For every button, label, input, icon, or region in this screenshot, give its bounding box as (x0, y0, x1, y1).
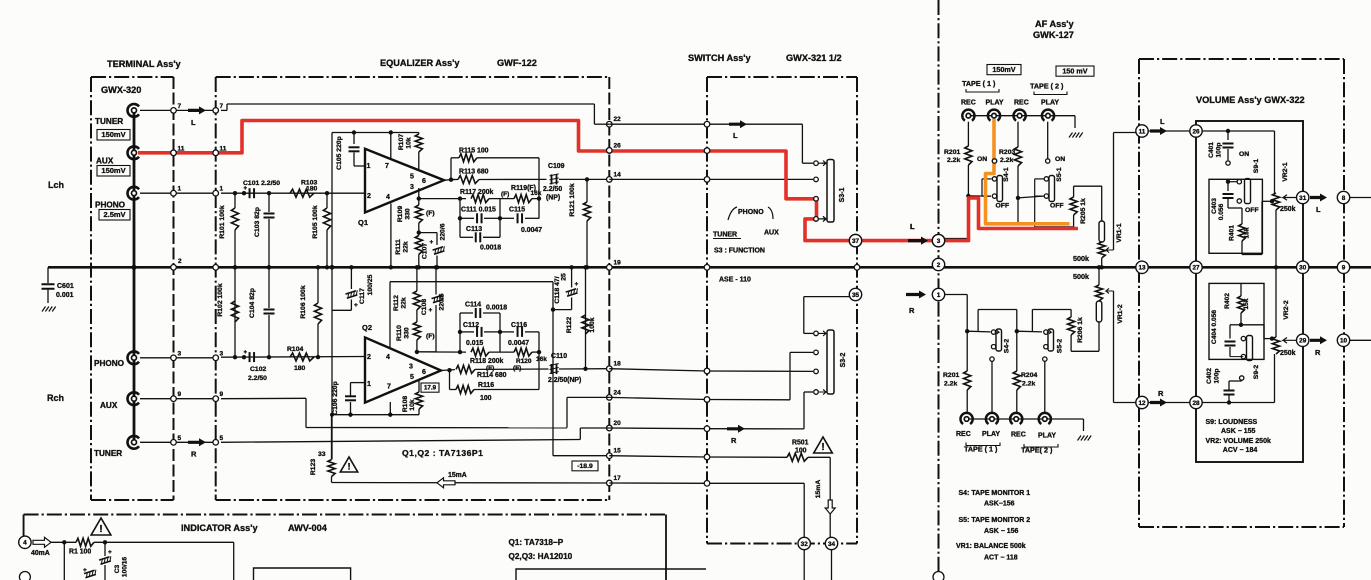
capacitor C404 0.056 (1229, 325, 1231, 339)
switch S5-2 (1044, 330, 1048, 334)
jack PHONO L (128, 187, 139, 200)
S3-2 wiper arrows (819, 331, 827, 336)
wire 35 route to S3-2 (804, 296, 856, 298)
resistor R205 1k (1073, 186, 1075, 197)
svg-text:R105 100k: R105 100k (312, 205, 319, 238)
junction jack stem to bus (131, 265, 136, 270)
pin 1 terminal border (171, 190, 177, 196)
svg-text:2.2/50: 2.2/50 (248, 375, 267, 382)
svg-text:ACT − 118: ACT − 118 (984, 555, 1018, 562)
svg-text:PLAY: PLAY (982, 431, 1000, 438)
jack TUNER R (128, 436, 139, 449)
svg-text:S5-2: S5-2 (1057, 339, 1064, 354)
svg-text:Q1: Q1 (358, 218, 368, 227)
capacitor C103 82p (267, 191, 271, 195)
black wire under red at S3-1 (786, 151, 813, 199)
warning triangle near R501 (814, 437, 833, 453)
svg-text:C107: C107 (422, 243, 429, 259)
feedback loop R115 wire (450, 158, 452, 180)
resistor R201 2.2k Lch (967, 122, 969, 146)
junction indicator (51, 541, 76, 543)
svg-text:AF Ass'y: AF Ass'y (1035, 19, 1074, 29)
svg-text:R206 1k: R206 1k (1077, 317, 1084, 343)
circle 9 bus (1337, 261, 1349, 273)
svg-text:150 mV: 150 mV (1062, 66, 1087, 75)
wire jack row y=357.8 (140, 357, 216, 359)
svg-text:100/25: 100/25 (367, 274, 374, 295)
svg-text:26: 26 (1192, 128, 1200, 135)
svg-text:R123: R123 (310, 459, 317, 475)
feedback loop R116 wire (449, 370, 451, 389)
wire R205 node to VR1-1 (1074, 185, 1102, 187)
svg-text:29: 29 (1299, 338, 1307, 345)
svg-text:(NP): (NP) (546, 195, 560, 202)
wire 24 row jog (566, 397, 568, 427)
junction Rch REC2 (1015, 329, 1019, 333)
wire tape jack top row (968, 115, 1075, 117)
svg-text:C111 0.015: C111 0.015 (461, 207, 496, 214)
svg-text:2.5mV: 2.5mV (103, 210, 125, 219)
capacitor C118 47/25 (569, 265, 573, 269)
svg-text:2.2k: 2.2k (944, 381, 957, 388)
svg-text:2.2k: 2.2k (947, 157, 960, 164)
circle 37 over red (849, 234, 861, 246)
arrow L to AF Lch (908, 237, 928, 245)
wire jack row y=442.3 (140, 441, 216, 443)
resistor R120 16k (514, 348, 532, 356)
voltage label -18.9 (572, 461, 598, 471)
svg-text:(F): (F) (513, 365, 521, 372)
svg-text:AWV-004: AWV-004 (288, 523, 328, 533)
svg-text:L: L (1316, 205, 1321, 214)
svg-text:5: 5 (220, 435, 224, 442)
switch S4-2 route (967, 330, 990, 333)
resistor R113 680 (451, 179, 458, 181)
svg-text:C404 0.056: C404 0.056 (1211, 310, 1218, 344)
svg-text:2.2k: 2.2k (1000, 157, 1013, 164)
AF Assy boundary dash line (938, 0, 940, 580)
svg-text:100: 100 (480, 395, 492, 402)
svg-text:9: 9 (220, 391, 224, 398)
wire -18.9V supply vertical (552, 282, 554, 456)
svg-text:PLAY: PLAY (1041, 100, 1059, 107)
svg-text:R117 200k: R117 200k (460, 189, 494, 196)
svg-text:3: 3 (220, 350, 224, 357)
wire R402 to VR2-2 tap (1241, 324, 1264, 326)
capacitor C105 220p (352, 130, 356, 134)
svg-text:2: 2 (367, 193, 371, 200)
circle 2 on AF border bus (932, 258, 944, 270)
svg-text:TUNER: TUNER (713, 232, 737, 239)
ground top tape jacks (1069, 133, 1073, 138)
svg-text:PHONO: PHONO (95, 201, 126, 210)
svg-text:9: 9 (178, 391, 182, 398)
svg-text:1: 1 (178, 186, 182, 193)
svg-text:3: 3 (937, 238, 941, 245)
svg-text:C108: C108 (421, 299, 428, 315)
circle 4 (19, 536, 31, 548)
svg-text:150mV: 150mV (992, 65, 1015, 74)
wire 14 line into switch (609, 178, 813, 180)
svg-text:26: 26 (614, 142, 622, 149)
capacitor C104 82p (267, 355, 271, 359)
wire AUX L to pin 26 (under red) (221, 152, 242, 154)
jack TAPE2 PLAY top (1042, 110, 1054, 121)
svg-text:(F): (F) (426, 333, 435, 340)
svg-text:REC: REC (961, 100, 976, 107)
wire jack row y=398.7 (140, 398, 216, 400)
svg-text:R116: R116 (478, 382, 494, 389)
svg-text:R203: R203 (999, 149, 1015, 156)
jack TUNER L (128, 104, 139, 117)
svg-text:3: 3 (409, 364, 413, 371)
svg-text:TAPE ( 2 ): TAPE ( 2 ) (1030, 82, 1064, 91)
svg-text:-18.9: -18.9 (577, 463, 593, 470)
svg-text:L: L (733, 131, 738, 140)
loudness box Rch (1209, 283, 1264, 359)
svg-text:15k: 15k (1244, 227, 1251, 238)
svg-text:C112: C112 (463, 322, 479, 329)
svg-text:R120: R120 (516, 358, 532, 365)
jack shield stem wire (133, 110, 136, 442)
resistor R111 22k (418, 233, 420, 236)
indicator sub box (254, 568, 351, 580)
svg-text:2: 2 (178, 258, 182, 265)
resistor R501 100 (787, 453, 808, 461)
svg-text:ACV − 184: ACV − 184 (1223, 447, 1258, 454)
wire PHONO L input line (221, 192, 365, 194)
svg-text:TUNER: TUNER (94, 449, 122, 458)
switch S4-1 (992, 159, 996, 163)
svg-text:R108: R108 (402, 396, 409, 412)
svg-text:0.0018: 0.0018 (480, 245, 501, 252)
svg-text:22: 22 (614, 116, 622, 123)
arrow L after TUNER L (188, 106, 206, 114)
wire 20 line into switch jog to S3-2 (609, 427, 707, 430)
svg-text:C105 220p: C105 220p (336, 136, 343, 170)
svg-text:15mA: 15mA (448, 472, 467, 479)
svg-text:R104: R104 (287, 346, 303, 353)
jack TAPE2 REC top (1013, 110, 1025, 121)
svg-text:ASE - 110: ASE - 110 (719, 277, 751, 284)
svg-text:VR1: BALANCE 500k: VR1: BALANCE 500k (956, 543, 1026, 550)
svg-text:9: 9 (1342, 265, 1346, 272)
svg-text:5: 5 (410, 374, 414, 381)
svg-text:R402: R402 (1224, 293, 1231, 309)
svg-text:220/6: 220/6 (440, 223, 447, 240)
svg-text:TERMINAL Ass'y: TERMINAL Ass'y (107, 59, 182, 69)
circle 28 (1190, 396, 1202, 408)
resistor R1 100 (76, 538, 94, 546)
VR1-1 wiper arrow (1106, 247, 1114, 252)
wire TUNER L to pin 22 jog (221, 109, 227, 111)
wire Lch volume input (1202, 130, 1275, 132)
jack AUX L (128, 146, 139, 159)
jack AUX R (128, 392, 139, 405)
circle 32 (798, 537, 810, 549)
resistor R101 100k (233, 191, 237, 195)
svg-text:R: R (731, 436, 737, 445)
svg-text:R118 200k: R118 200k (470, 358, 504, 365)
svg-text:C115: C115 (509, 207, 525, 214)
arrow L over red between 37 and 3 (908, 237, 928, 245)
jack TAPE1 PLAY top (988, 110, 1000, 121)
svg-text:100/16: 100/16 (122, 557, 129, 578)
capacitor C402 100p (1227, 400, 1231, 404)
svg-text:Q2,Q3: HA12010: Q2,Q3: HA12010 (509, 552, 573, 561)
svg-text:R109: R109 (397, 206, 404, 222)
SWITCH Assy border box GWX-321 (707, 76, 857, 78)
circle 13 on bus (1136, 261, 1148, 273)
pin 26 switch border over red (704, 148, 710, 154)
wire S5-1 OFF path to R205 bottom (1035, 226, 1074, 228)
svg-text:!: ! (821, 442, 824, 453)
resistor R107 10k (418, 133, 420, 135)
wire indicator border to circle 4 (23, 515, 25, 537)
svg-text:VR2-2: VR2-2 (1283, 300, 1290, 319)
pin 18 switch border (704, 368, 710, 374)
svg-text:C117: C117 (359, 288, 366, 304)
svg-text:+: + (575, 281, 579, 288)
svg-text:(F): (F) (426, 210, 435, 217)
pin 7 equalizer border (213, 108, 219, 114)
svg-text:OFF: OFF (1050, 203, 1064, 210)
indicator sub box 2 (516, 569, 706, 580)
svg-text:AUX: AUX (764, 230, 779, 237)
svg-text:5: 5 (178, 435, 182, 442)
resistor R114 680 (456, 365, 475, 373)
resistor R117 200k (471, 195, 489, 203)
svg-text:C106 220p: C106 220p (332, 381, 339, 415)
svg-text:C109: C109 (548, 163, 565, 170)
pin 20 equalizer right border (607, 425, 613, 431)
capacitor C115 0.0047 (500, 217, 514, 219)
resistor R110 330 (415, 350, 419, 354)
svg-text:100: 100 (795, 448, 807, 455)
potentiometer VR1-2 balance 500k (1098, 322, 1100, 351)
pin 24 switch border (704, 397, 710, 403)
wire rail spine vertical (331, 133, 333, 460)
svg-text:S4-1: S4-1 (1003, 167, 1010, 182)
arrow R on 20 line (727, 425, 745, 433)
arrow L on 22 line (729, 120, 747, 128)
svg-text:VR1-2: VR1-2 (1117, 304, 1124, 323)
svg-text:EQUALIZER Ass'y: EQUALIZER Ass'y (380, 58, 460, 68)
svg-text:AUX: AUX (96, 157, 114, 166)
circle 8 (1337, 191, 1349, 203)
svg-text:R201: R201 (944, 149, 960, 156)
wire R206 to VR1-2 (1071, 350, 1099, 352)
svg-text:250k: 250k (1280, 206, 1296, 213)
wire 17 line into switch to circle 32 (609, 482, 707, 484)
svg-text:0.001: 0.001 (56, 292, 74, 299)
wire PLAY1 down (under orange) (993, 122, 995, 159)
svg-text:AUX: AUX (100, 401, 118, 410)
svg-text:22k: 22k (401, 297, 408, 309)
svg-text:C104 82p: C104 82p (249, 288, 256, 318)
svg-text:R205 1k: R205 1k (1080, 198, 1087, 224)
svg-text:27: 27 (1192, 265, 1200, 272)
svg-text:GWF-122: GWF-122 (497, 58, 537, 68)
wire Q1 output node (444, 179, 455, 182)
pin 11 terminal border over red (171, 150, 177, 156)
svg-text:24: 24 (614, 389, 622, 396)
capacitor C403 0.056 (1227, 182, 1229, 191)
jack TAPE1 PLAY bottom (986, 413, 998, 424)
svg-text:28: 28 (1192, 400, 1200, 407)
open arrow 15mA down (825, 500, 835, 514)
pin 5 equalizer border (213, 440, 219, 446)
svg-text:S5: TAPE MONITOR 2: S5: TAPE MONITOR 2 (959, 517, 1031, 524)
label 150mV tape1 (987, 65, 1021, 75)
pin circle AF bottom (933, 572, 944, 580)
wire Q2 output node (441, 369, 455, 372)
resistor R201 2.2k Rch (964, 371, 971, 390)
pin 18 equalizer right border (607, 366, 613, 372)
svg-text:L: L (910, 222, 915, 231)
svg-text:100p: 100p (1214, 368, 1221, 383)
capacitor C112 0.015 (459, 313, 461, 352)
svg-text:VR2-1: VR2-1 (1282, 162, 1289, 181)
capacitor C113 0.0018 (460, 236, 473, 238)
switch S9-1 (1226, 180, 1230, 184)
svg-text:SWITCH Ass'y: SWITCH Ass'y (688, 53, 751, 63)
wire Q1 top rail (332, 132, 419, 134)
svg-text:4: 4 (386, 194, 390, 201)
wire 22 line into switch (609, 123, 802, 125)
svg-text:150mV: 150mV (101, 130, 125, 139)
svg-text:4: 4 (23, 540, 27, 547)
svg-text:REC: REC (1014, 100, 1029, 107)
svg-text:3: 3 (178, 350, 182, 357)
wire PHONO R input line (221, 356, 365, 359)
S5-2 open contact to PLAY2 (1043, 357, 1047, 361)
svg-text:C102: C102 (250, 366, 266, 373)
pin 9 equalizer border (213, 396, 219, 402)
svg-text:18: 18 (614, 361, 622, 368)
svg-text:+: + (244, 186, 248, 192)
resistor R103 180 (290, 189, 314, 197)
wire junction to S4-1 contact (968, 195, 991, 197)
pin 5 terminal border (171, 440, 177, 446)
capacitor C3 100/16 (104, 542, 106, 556)
potentiometer VR2-2 250k (1274, 354, 1276, 403)
wire junction down to circle 3 (under red) (967, 196, 969, 239)
resistor R402 15k (1240, 313, 1242, 325)
switch S5-2 route (1017, 330, 1042, 333)
svg-text:220/6: 220/6 (439, 293, 446, 310)
switch S9-2 (1239, 323, 1243, 327)
svg-text:10: 10 (1340, 338, 1348, 345)
svg-text:3: 3 (410, 184, 414, 191)
junction R109/R111 node (417, 230, 421, 234)
S3-1 contact over red (814, 197, 819, 202)
svg-text:R111: R111 (395, 239, 402, 255)
svg-text:R501: R501 (792, 440, 809, 447)
open arrow 40mA (33, 537, 51, 547)
junction R1 right (103, 540, 107, 544)
svg-text:15: 15 (614, 448, 622, 455)
circle 35 (849, 288, 861, 300)
svg-text:15k: 15k (1243, 298, 1250, 309)
capacitor C110 2.2/50 NP (551, 364, 553, 374)
label 150mV AUX L (97, 166, 130, 177)
wire Q2 bottom rail (332, 414, 419, 416)
wire indicator box edge (233, 542, 235, 580)
loudness box Lch (1209, 179, 1262, 253)
pin 24 equalizer right border (607, 395, 613, 401)
svg-text:500k: 500k (1073, 272, 1089, 281)
svg-text:+: + (108, 549, 112, 556)
svg-text:PHONO: PHONO (738, 209, 764, 216)
jack TAPE1 REC bottom (961, 413, 973, 424)
svg-text:S3-1: S3-1 (839, 188, 846, 203)
capacitor C116 0.0047 (500, 331, 514, 333)
svg-text:(F): (F) (486, 365, 494, 372)
arrow L after 11 (1150, 127, 1167, 135)
svg-text:C601: C601 (57, 283, 74, 290)
svg-text:6: 6 (422, 369, 426, 376)
svg-text:GWX-320: GWX-320 (101, 85, 141, 95)
circle 10 (1337, 334, 1349, 346)
svg-text:8: 8 (1342, 195, 1346, 202)
capacitor C108 220/6 (417, 351, 436, 353)
svg-text:31: 31 (1299, 195, 1307, 202)
resistor R206 1k (1070, 310, 1072, 318)
svg-text:1: 1 (367, 381, 371, 388)
svg-text:R107: R107 (398, 134, 405, 150)
svg-text:S9-1: S9-1 (1253, 159, 1260, 174)
svg-text:TUNER: TUNER (95, 117, 123, 126)
svg-text:32: 32 (801, 541, 809, 548)
pin 11 equalizer border over red (213, 150, 219, 156)
svg-text:REC: REC (1011, 432, 1026, 439)
VR2-2 wiper arrow (1283, 338, 1297, 344)
svg-text:C114: C114 (465, 302, 481, 309)
S3-1 wiper arrows (819, 161, 827, 166)
svg-text:TAPE ( 1 ): TAPE ( 1 ) (962, 79, 996, 88)
resistor R112 22k (413, 291, 420, 310)
svg-text:2: 2 (937, 262, 941, 269)
svg-text:+: + (429, 307, 433, 314)
resistor R102 100k (233, 355, 237, 359)
svg-text:2.2k: 2.2k (1022, 381, 1035, 388)
circle 11 input L (1136, 125, 1148, 137)
svg-text:15mA: 15mA (815, 480, 822, 499)
wire jack row y=193.2 (140, 192, 216, 194)
pin 20 switch border (704, 426, 710, 432)
circle 37 (849, 234, 861, 246)
circle 12 input R (1136, 396, 1148, 408)
svg-text:C402: C402 (1206, 368, 1213, 384)
svg-text:6: 6 (422, 178, 426, 185)
svg-text:14: 14 (614, 171, 622, 178)
wire Q2 pin7 to rail (388, 413, 392, 417)
svg-text:R: R (191, 450, 197, 459)
svg-text:7: 7 (220, 103, 224, 110)
svg-text:12: 12 (1138, 400, 1146, 407)
svg-text:R201: R201 (943, 372, 959, 379)
resistor R203 2.2k (1017, 122, 1019, 147)
svg-text:(F): (F) (501, 191, 509, 198)
wire R203 to S5-1 (1018, 196, 1043, 198)
svg-text:0.015: 0.015 (466, 340, 483, 347)
svg-text:19: 19 (614, 259, 622, 266)
svg-text:S4: TAPE MONITOR 1: S4: TAPE MONITOR 1 (959, 490, 1031, 497)
jack TAPE2 REC bottom (1010, 413, 1022, 424)
wire S3-1 output down to 37 (under red) (804, 219, 806, 241)
svg-text:S9-2: S9-2 (1253, 365, 1260, 380)
